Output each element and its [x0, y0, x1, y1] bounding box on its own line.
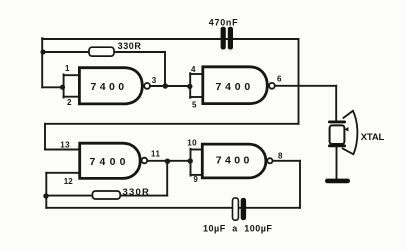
svg-text:12: 12 — [64, 177, 73, 186]
svg-text:11: 11 — [151, 150, 161, 159]
svg-text:330R: 330R — [118, 41, 142, 51]
svg-text:10: 10 — [187, 139, 197, 148]
svg-text:330R: 330R — [123, 187, 151, 198]
svg-text:3: 3 — [152, 76, 157, 85]
svg-text:1: 1 — [65, 64, 70, 73]
svg-text:7400: 7400 — [216, 81, 255, 93]
svg-text:8: 8 — [278, 152, 283, 161]
svg-text:9: 9 — [193, 175, 198, 184]
svg-text:7400: 7400 — [90, 156, 130, 168]
svg-text:13: 13 — [60, 140, 70, 149]
svg-text:2: 2 — [67, 98, 72, 107]
svg-text:7400: 7400 — [91, 81, 128, 93]
svg-text:5: 5 — [192, 101, 197, 110]
svg-text:10µF a 100µF: 10µF a 100µF — [203, 223, 272, 233]
svg-text:XTAL: XTAL — [361, 132, 385, 143]
svg-text:7400: 7400 — [216, 155, 253, 167]
svg-text:470nF: 470nF — [209, 18, 239, 28]
svg-text:6: 6 — [277, 75, 282, 84]
svg-text:4: 4 — [191, 65, 196, 74]
